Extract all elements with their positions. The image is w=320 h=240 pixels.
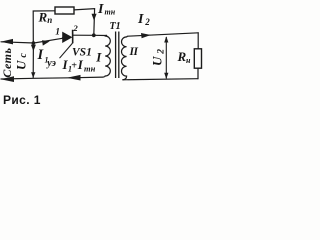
arrow U2 bottom head [164,73,168,79]
svg-text:T1: T1 [110,21,121,32]
wire: mains top conductor [1,38,62,43]
thyristor VS1 gate lead [60,43,73,58]
svg-text:R: R [177,49,187,64]
wire: load right side lower [197,68,199,79]
wire: thyristor cathode to transformer primary [73,34,106,36]
svg-text:тн: тн [105,8,116,17]
svg-text:1: 1 [45,56,49,65]
junction node at cathode / Rp right tap [92,33,96,37]
svg-text:I: I [95,50,102,65]
arrow I1 down on vertical [31,45,36,52]
resistor Rp [55,7,74,14]
arrow I1 on top wire [42,40,50,45]
svg-text:Рис. 1: Рис. 1 [3,93,41,107]
svg-text:+: + [71,61,77,72]
svg-text:I: I [137,12,144,27]
svg-text:1: 1 [55,27,60,37]
arrow Itn down on Rp right branch [92,14,97,21]
transformer core [115,32,117,79]
thyristor anode wire short [61,37,63,38]
transformer T1 secondary winding [122,36,129,80]
svg-text:2: 2 [144,17,150,27]
svg-text:н: н [186,56,191,65]
arrow mains top left [1,39,14,45]
wire: load right side upper [197,33,199,49]
wire: Rp branch left vertical [33,11,55,43]
arrow I1+Itn on bottom wire [67,75,81,81]
wire: secondary bottom conductor [123,79,198,80]
U2 measuring arrow line [165,37,167,78]
svg-text:I: I [97,2,104,17]
svg-text:R: R [38,10,48,25]
resistor Rn [194,49,201,68]
svg-text:п: п [47,15,52,25]
arrow Uc bottom head [31,72,35,78]
svg-text:U: U [150,56,165,66]
wire: secondary top to load [128,33,198,36]
junction node at Rp left tap [32,41,36,45]
svg-text:I: I [77,57,84,72]
thyristor VS1 triangle [63,32,72,42]
wire: Uc / I1 vertical line [32,43,34,78]
svg-text:с: с [18,53,29,58]
svg-text:2: 2 [73,23,79,33]
transformer T1 primary winding [103,35,110,77]
svg-text:U: U [13,60,28,70]
svg-text:тн: тн [84,64,96,74]
thyristor VS1 cathode bar [72,30,74,44]
wire: Rp branch right side [74,9,95,36]
svg-text:Сеть: Сеть [0,48,14,78]
svg-text:2: 2 [157,49,167,55]
svg-text:II: II [129,46,139,58]
arrow I2 on secondary top wire [141,33,151,38]
arrow U2 top head [164,36,168,42]
arrow mains bottom left [1,76,15,82]
wire: mains bottom conductor [1,77,103,79]
